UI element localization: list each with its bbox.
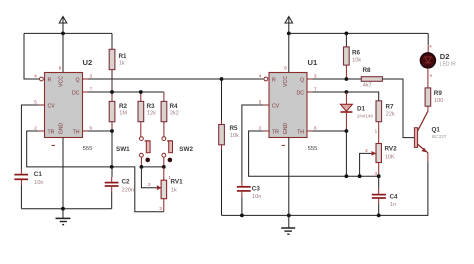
- svg-text:R: R: [272, 77, 276, 83]
- node RV2 bottom / C4: [377, 174, 381, 178]
- node junction top rail left: [61, 32, 65, 36]
- svg-text:GND: GND: [283, 122, 289, 134]
- capacitor C4: [372, 176, 398, 215]
- wire U1 Q pin3 to R8: [313, 78, 362, 80]
- svg-text:6: 6: [90, 125, 93, 130]
- svg-text:SW2: SW2: [179, 146, 193, 153]
- svg-text:Q: Q: [300, 77, 304, 83]
- svg-text:C1: C1: [34, 171, 43, 178]
- svg-text:DC: DC: [297, 90, 305, 96]
- svg-text:6: 6: [314, 125, 317, 130]
- pin number 1 U2: [52, 144, 56, 146]
- svg-text:5: 5: [259, 99, 262, 104]
- svg-text:1: 1: [375, 128, 378, 133]
- wire U1 TR loop: [249, 131, 379, 176]
- resistor R1: [109, 33, 127, 92]
- svg-text:D2: D2: [440, 52, 450, 61]
- potentiometer RV1: [156, 167, 183, 212]
- svg-text:R9: R9: [434, 90, 443, 97]
- svg-text:8: 8: [59, 66, 62, 71]
- node D1 top: [345, 90, 349, 94]
- node R2 bottom / TH: [110, 129, 114, 133]
- ground symbol right: [281, 215, 295, 234]
- svg-text:U1: U1: [308, 58, 318, 67]
- resistor R3: [138, 92, 156, 137]
- svg-text:GND: GND: [59, 122, 65, 134]
- svg-text:3: 3: [314, 73, 317, 78]
- wire U2 Q output pin3 to U1 reset: [88, 78, 263, 80]
- svg-text:2k2: 2k2: [170, 110, 179, 116]
- node Q/R6: [345, 77, 349, 81]
- wire Q1 emitter to ground rail: [427, 162, 429, 215]
- switch SW2: [162, 137, 194, 167]
- svg-text:2: 2: [365, 148, 368, 153]
- svg-text:BC337: BC337: [432, 134, 447, 140]
- wire left drop to pin 4: [24, 33, 39, 79]
- node TR/D1: [345, 174, 349, 178]
- node power right: [287, 32, 291, 36]
- svg-text:10k: 10k: [230, 133, 239, 139]
- wire timing node TR-TH left loop: [27, 131, 164, 212]
- svg-text:1k: 1k: [119, 61, 125, 67]
- switch SW1: [116, 137, 150, 167]
- svg-text:1k: 1k: [171, 187, 177, 193]
- svg-text:C3: C3: [252, 186, 261, 193]
- svg-text:2: 2: [148, 182, 151, 187]
- svg-text:R6: R6: [352, 50, 361, 57]
- svg-text:RV2: RV2: [385, 146, 398, 153]
- node C4 ground: [377, 214, 381, 218]
- svg-text:7: 7: [314, 86, 317, 91]
- svg-text:CV: CV: [48, 103, 56, 109]
- node SW1 bottom: [140, 165, 144, 169]
- node U1 ground: [287, 214, 291, 218]
- wire U2 GND pin1: [62, 138, 64, 209]
- svg-text:R2: R2: [119, 103, 128, 110]
- svg-text:TR: TR: [48, 129, 55, 135]
- resistor R2: [109, 92, 127, 131]
- pin number 1 U1: [282, 144, 286, 146]
- power symbol VCC left: [59, 17, 67, 34]
- svg-text:1M: 1M: [119, 110, 127, 116]
- svg-text:R4: R4: [170, 103, 179, 110]
- wire U2 TH pin6: [88, 130, 112, 132]
- svg-text:U2: U2: [83, 58, 93, 67]
- svg-text:VCC: VCC: [59, 76, 65, 87]
- svg-text:3: 3: [374, 171, 377, 176]
- resistor R8: [361, 67, 382, 89]
- wire top rail right: [289, 32, 428, 34]
- wire U2 VCC pin 8: [62, 33, 64, 72]
- node D1 bottom / TH: [345, 129, 349, 133]
- transistor Q1 BC337: [414, 111, 446, 162]
- svg-text:C2: C2: [122, 179, 131, 186]
- svg-text:1N4148: 1N4148: [357, 113, 374, 118]
- capacitor C2: [105, 131, 134, 209]
- svg-text:8: 8: [284, 66, 287, 71]
- wire top rail corner to LED D2: [427, 33, 429, 44]
- wire R5 bottom to ground rail: [221, 150, 223, 215]
- wire U2 CV pin5 to C1: [21, 105, 38, 169]
- svg-text:LED IR: LED IR: [440, 62, 457, 68]
- svg-text:555: 555: [308, 146, 318, 152]
- wire U1 TH pin6: [313, 130, 347, 132]
- svg-text:12k: 12k: [147, 110, 156, 116]
- power symbol VCC right: [285, 17, 293, 34]
- svg-text:2: 2: [34, 125, 37, 130]
- svg-text:1n: 1n: [390, 202, 396, 208]
- svg-text:TR: TR: [272, 129, 279, 135]
- svg-text:5: 5: [34, 99, 37, 104]
- wire to RV1 wiper: [141, 167, 156, 188]
- svg-text:R3: R3: [147, 103, 156, 110]
- svg-text:10n: 10n: [252, 194, 261, 200]
- svg-text:SW1: SW1: [116, 146, 130, 153]
- svg-text:4: 4: [259, 73, 262, 78]
- svg-text:R: R: [48, 77, 52, 83]
- svg-text:VCC: VCC: [283, 76, 289, 87]
- resistor R7: [376, 101, 395, 144]
- svg-text:R1: R1: [119, 53, 128, 60]
- node C2 cross: [110, 165, 114, 169]
- node ground rail left: [61, 207, 65, 211]
- capacitor C3: [237, 181, 261, 215]
- svg-text:Q1: Q1: [432, 126, 441, 133]
- node R2 top: [110, 90, 114, 94]
- svg-text:DC: DC: [72, 90, 80, 96]
- svg-text:RV1: RV1: [171, 179, 184, 186]
- svg-text:220n: 220n: [122, 187, 134, 193]
- pin stubs U1: [263, 79, 313, 131]
- svg-text:3: 3: [159, 206, 162, 211]
- svg-text:k: k: [430, 43, 432, 48]
- node wiper RV2: [358, 174, 362, 178]
- svg-text:Q: Q: [75, 77, 79, 83]
- svg-text:4k7: 4k7: [363, 82, 372, 88]
- svg-text:10k: 10k: [352, 57, 361, 63]
- wire LED to R9: [427, 68, 429, 88]
- svg-text:3: 3: [90, 73, 93, 78]
- svg-text:2: 2: [259, 125, 262, 130]
- svg-text:R5: R5: [230, 125, 239, 132]
- wire D1 node down: [345, 131, 347, 176]
- ground symbol left: [56, 209, 71, 225]
- op-amp U2 555 timer body: [40, 73, 83, 138]
- svg-text:D1: D1: [357, 106, 366, 113]
- svg-text:10n: 10n: [34, 180, 43, 186]
- pin stubs U2: [38, 79, 88, 131]
- resistor R4: [161, 92, 179, 137]
- wire U2 DC pin7: [88, 91, 164, 93]
- node SW2 bottom: [162, 165, 166, 169]
- node R5 top: [220, 77, 224, 81]
- svg-text:C4: C4: [390, 194, 399, 201]
- wire ground rail right: [222, 214, 429, 216]
- wire U1 CV pin5 to C3: [242, 105, 263, 181]
- potentiometer RV2: [360, 144, 398, 177]
- op-amp U1 555 timer body: [264, 73, 307, 138]
- svg-text:R7: R7: [386, 104, 395, 111]
- wire R8 to Q1 base: [382, 79, 414, 138]
- wire top rail left: [24, 32, 112, 34]
- svg-text:TH: TH: [73, 129, 80, 135]
- node R6 top: [345, 32, 349, 36]
- wire U1 GND pin1: [288, 138, 290, 216]
- wire U1 DC pin7: [313, 92, 379, 101]
- LED D2: [420, 52, 456, 68]
- svg-text:R8: R8: [363, 67, 372, 74]
- svg-text:TH: TH: [297, 129, 304, 135]
- resistor R9: [425, 88, 443, 111]
- node C3 ground: [240, 214, 244, 218]
- diode D1 1N4148: [340, 92, 373, 131]
- node R3 top: [139, 90, 143, 94]
- wire SW1 bottom to SW2 bottom: [141, 166, 163, 168]
- svg-text:7: 7: [90, 86, 93, 91]
- wire U1 VCC pin8: [288, 33, 290, 72]
- svg-text:4: 4: [34, 73, 37, 78]
- svg-text:100: 100: [434, 98, 443, 104]
- wire ground rail left: [21, 208, 111, 210]
- svg-text:22k: 22k: [386, 111, 395, 117]
- resistor R5: [219, 79, 239, 150]
- svg-text:555: 555: [83, 146, 93, 152]
- resistor R6: [344, 33, 362, 79]
- svg-text:10K: 10K: [385, 154, 395, 160]
- capacitor C1: [14, 169, 43, 209]
- svg-text:CV: CV: [272, 103, 280, 109]
